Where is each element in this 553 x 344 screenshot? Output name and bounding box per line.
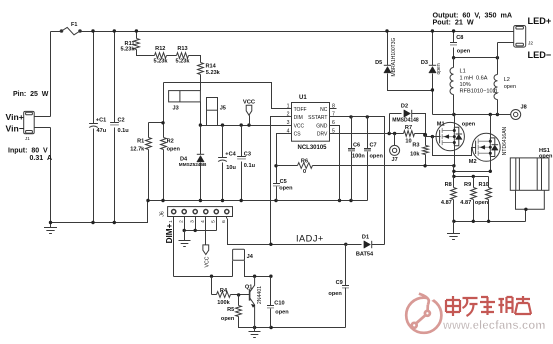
svg-text:L1: L1: [460, 68, 466, 74]
junction left rail / ground bus: [49, 221, 52, 224]
junction gnd line C4: [221, 199, 224, 202]
wire J2 bottom pin: [498, 42, 514, 44]
wire C10 lower: [270, 309, 272, 328]
svg-text:R9: R9: [464, 182, 471, 188]
diode D5: [384, 65, 391, 73]
svg-text:M2: M2: [469, 159, 477, 165]
capacitor C10: [267, 306, 274, 308]
junction DIM+ R4: [210, 275, 213, 278]
wire output node link: [454, 57, 498, 59]
junction C1 top rail: [91, 29, 94, 32]
svg-text:VCC: VCC: [294, 123, 305, 129]
wire C6 bottom lead: [351, 152, 353, 201]
wire switch node: [433, 114, 511, 116]
svg-text:0.31 A: 0.31 A: [30, 155, 53, 162]
junction source line right: [489, 170, 492, 173]
svg-text:RFB1010−102L: RFB1010−102L: [460, 88, 499, 94]
svg-text:D5: D5: [375, 60, 382, 66]
wire J6 pin6 stub: [226, 217, 228, 219]
svg-text:GND: GND: [316, 123, 328, 129]
wire J6 pin1 stub: [173, 217, 175, 219]
svg-text:6: 6: [221, 220, 227, 223]
junction R11 top rail: [135, 29, 138, 32]
wire J3 to VCC rail: [200, 102, 202, 126]
svg-text:M1: M1: [437, 121, 445, 127]
wire M2 gate jog: [433, 137, 476, 156]
svg-text:open: open: [370, 153, 384, 159]
capacitor C2: [110, 123, 119, 125]
wire U1 pin5 DRV: [330, 133, 404, 135]
svg-text:R6: R6: [301, 158, 308, 164]
svg-text:Pin: 25 W: Pin: 25 W: [13, 91, 49, 98]
svg-text:2: 2: [179, 220, 185, 223]
wire C8 bottom lead: [453, 48, 455, 58]
jumper J5: [207, 98, 218, 126]
svg-text:L2: L2: [504, 77, 510, 83]
power symbol VCC: [246, 105, 252, 125]
svg-text:open: open: [275, 309, 289, 315]
fuse F1: [60, 27, 81, 34]
svg-text:LED−: LED−: [528, 50, 552, 60]
svg-text:VCC: VCC: [205, 256, 211, 267]
junction IADJ DIM vertical: [269, 243, 272, 246]
ground symbol main left: [44, 223, 57, 234]
svg-text:J5: J5: [220, 105, 226, 111]
wire R9 bottom lead: [473, 200, 475, 222]
svg-text:U1: U1: [299, 95, 307, 101]
resistor R13: [177, 53, 189, 59]
testpoint J7: [390, 145, 400, 155]
junction gnd line D4: [199, 199, 202, 202]
wire C9 bottom lead: [345, 288, 347, 328]
wire J6 pin2 stub: [184, 217, 186, 219]
testpoint J8: [511, 110, 521, 120]
svg-text:10k: 10k: [410, 151, 420, 157]
wire left rail down (Vin- to ground bus): [50, 128, 52, 223]
svg-text:12.7k: 12.7k: [130, 147, 145, 153]
wire J6 pin1 DIM+ drop: [173, 219, 175, 277]
svg-text:SSTART: SSTART: [308, 115, 327, 121]
junction gnd line C3: [240, 199, 243, 202]
wire right ground bus: [454, 221, 526, 223]
zener diode D4: [197, 154, 204, 162]
junction IADJ C9: [344, 243, 347, 246]
wire D2 cathode lead: [412, 114, 426, 134]
junction TOFF left / R1 link: [161, 121, 164, 124]
resistor R8: [451, 188, 457, 200]
junction gate node R3: [423, 133, 427, 137]
svg-text:BAT54: BAT54: [356, 252, 374, 258]
svg-text:0: 0: [303, 169, 306, 175]
resistor R3: [423, 146, 429, 155]
transistor M2 source junction: [489, 152, 492, 155]
svg-text:C10: C10: [274, 300, 284, 306]
junction gate node M2 tap: [431, 135, 434, 138]
wire J6 pin5 to gnd tie: [216, 219, 218, 231]
svg-text:DRV: DRV: [317, 132, 328, 138]
svg-text:NCL30105: NCL30105: [298, 145, 328, 151]
junction VCC rail symbol: [247, 123, 250, 126]
wire R1 bottom lead: [148, 150, 150, 201]
svg-text:D2: D2: [401, 104, 408, 110]
junction gnd line C6: [349, 199, 352, 202]
junction D5 D3 link: [431, 88, 434, 91]
svg-text:R4: R4: [220, 288, 228, 294]
svg-text:3: 3: [287, 120, 290, 126]
svg-text:10%: 10%: [460, 82, 471, 88]
wire U1 pin2 DIM: [271, 117, 292, 245]
capacitor C1: [89, 124, 98, 128]
diode D1: [364, 241, 372, 248]
svg-text:MMSD4148: MMSD4148: [392, 118, 419, 124]
junction output C8 L1: [452, 56, 455, 59]
junction gnd tie pin3: [194, 229, 197, 232]
junction gnd line U1 GND: [338, 199, 341, 202]
watermark chinese text: [446, 296, 531, 316]
svg-text:DIM: DIM: [294, 115, 303, 121]
svg-text:C7: C7: [370, 143, 377, 149]
wire M2 source: [490, 153, 492, 172]
resistor R12: [155, 53, 167, 59]
transistor M2 gate junction: [489, 146, 492, 149]
svg-text:open: open: [457, 49, 471, 55]
wire R4 left lead: [212, 294, 217, 296]
svg-text:5.23k: 5.23k: [206, 70, 221, 76]
wire C6 top lead: [351, 117, 353, 149]
wire R5 top lead: [238, 295, 240, 306]
svg-text:Input: 80 V: Input: 80 V: [8, 147, 48, 154]
svg-text:47u: 47u: [97, 128, 107, 134]
wire left rail up (Vin+ to fuse): [50, 32, 52, 117]
svg-text:4.87: 4.87: [441, 200, 452, 206]
junction gnd line C5: [274, 199, 277, 202]
svg-text:J2: J2: [528, 40, 533, 46]
wire L1 bottom lead: [453, 95, 455, 115]
svg-text:C6: C6: [353, 143, 360, 149]
wire C4 top lead: [222, 126, 224, 158]
junction sense R9: [472, 175, 475, 178]
junction rail C8: [452, 29, 455, 32]
svg-text:2N4401: 2N4401: [257, 286, 263, 304]
junction gnd line R1: [146, 199, 149, 202]
svg-text:R3: R3: [412, 142, 419, 148]
capacitor C8: [450, 43, 457, 45]
svg-text:R10: R10: [479, 182, 489, 188]
svg-text:R7: R7: [405, 125, 412, 131]
wire HS1 to ground bus: [525, 210, 527, 222]
wire D3 bottom lead: [432, 74, 434, 115]
wire R2 bottom lead: [163, 150, 165, 201]
junction bottom line C10: [269, 326, 272, 329]
svg-text:IADJ+: IADJ+: [296, 233, 324, 243]
wire R13 to R14: [189, 56, 201, 63]
ground symbol right: [447, 222, 460, 240]
wire J6 pin2 to gnd tie: [184, 219, 186, 231]
svg-text:C5: C5: [280, 179, 287, 185]
jumper J4: [233, 249, 245, 260]
svg-text:R5: R5: [227, 307, 234, 313]
svg-text:D3: D3: [421, 60, 428, 66]
junction switch L2: [496, 113, 499, 116]
wire R7 right lead: [415, 134, 426, 137]
junction bus R9: [472, 220, 475, 223]
diode D3: [429, 65, 436, 73]
wire R9 top lead: [473, 177, 475, 188]
svg-text:J6: J6: [160, 211, 166, 217]
svg-text:R8: R8: [445, 182, 452, 188]
wire R4 drop: [211, 277, 213, 295]
wire L2 top lead: [497, 58, 499, 75]
junction CS line M1 source: [452, 164, 455, 167]
svg-text:3: 3: [190, 220, 196, 223]
svg-text:NTD6416AN: NTD6416AN: [502, 126, 508, 155]
svg-text:TOFF: TOFF: [294, 107, 307, 113]
resistor R4: [217, 292, 231, 298]
svg-text:NC: NC: [320, 107, 328, 113]
wire R6 left: [277, 165, 298, 167]
junction C2 ground bus: [113, 221, 116, 224]
wire D1 cathode lead: [372, 244, 385, 246]
wire R5 bottom lead: [239, 317, 240, 328]
wire VCC rail: [201, 125, 292, 127]
junction CS line R6: [274, 164, 277, 167]
wire gnd tie line: [185, 230, 217, 232]
svg-text:R12: R12: [155, 46, 165, 52]
svg-text:open: open: [328, 291, 342, 297]
wire Vin- pin to left rail: [35, 127, 51, 129]
wire C1 bottom: [93, 129, 95, 223]
junction gnd line R2: [161, 199, 164, 202]
junction gnd tie pin2: [183, 229, 186, 232]
wire L2 bottom lead: [497, 100, 499, 115]
svg-text:R14: R14: [206, 64, 217, 70]
svg-text:J4: J4: [247, 254, 254, 260]
wire DIM+ line left: [174, 276, 233, 278]
svg-text:open: open: [504, 84, 516, 90]
junction bottom line Q1 emitter: [253, 326, 256, 329]
wire L1 top lead: [453, 58, 455, 68]
wire R10 bottom lead: [488, 200, 490, 222]
wire C3 top lead: [241, 126, 243, 157]
wire R8 top lead: [453, 177, 455, 188]
transistor Q1: [250, 276, 255, 327]
wire R1 top lead: [148, 123, 150, 138]
svg-text:CS: CS: [294, 132, 302, 138]
wire C1 top: [93, 32, 95, 124]
junction DRV D2 left: [388, 132, 391, 135]
svg-text:open: open: [221, 316, 235, 322]
svg-text:5.23k: 5.23k: [121, 47, 136, 53]
wire C7 bottom lead: [367, 152, 369, 201]
wire D3 top lead: [432, 32, 434, 66]
jumper J3: [169, 91, 201, 102]
wire C10 upper: [270, 277, 272, 306]
wire J6 pin4 to VCC: [205, 219, 207, 245]
wire J4 left leg: [232, 261, 234, 277]
wire TOFF net left down to R2: [163, 83, 165, 138]
wire R3 top lead: [425, 135, 427, 146]
wire D2 anode lead: [390, 113, 402, 115]
wire U1 pin8 NC stub: [330, 108, 337, 110]
wire CS sense line: [313, 165, 454, 167]
junction DRV J7: [393, 132, 396, 135]
wire J4 right leg: [245, 261, 271, 277]
svg-text:4.87: 4.87: [460, 200, 471, 206]
wire U1 pin6 GND: [330, 126, 340, 201]
svg-text:10u: 10u: [226, 165, 236, 171]
svg-text:5.23k: 5.23k: [176, 59, 191, 65]
wire D4 bottom lead: [200, 163, 202, 201]
resistor R9: [471, 188, 477, 200]
wire J6 pin6 down: [228, 219, 346, 245]
wire C7 top lead: [367, 117, 369, 149]
junction C2 top rail: [113, 29, 116, 32]
wire D5 bottom lead: [388, 74, 433, 91]
transistor M2 drain junction: [489, 140, 492, 143]
junction Q1 collector top: [253, 275, 256, 278]
svg-text:J8: J8: [521, 105, 527, 111]
resistor R10: [486, 188, 492, 200]
wire R10 top lead: [488, 177, 490, 188]
wire analog ground line: [148, 200, 368, 202]
junction bus R8: [452, 220, 455, 223]
svg-text:open: open: [436, 63, 442, 74]
wire M1-M2 source line: [454, 171, 491, 173]
svg-text:D1: D1: [362, 234, 369, 240]
wire C3 bottom lead: [241, 162, 243, 201]
capacitor C4: [218, 158, 227, 162]
wire C2 top: [114, 32, 116, 123]
svg-text:open: open: [539, 153, 553, 159]
svg-text:C2: C2: [118, 117, 125, 123]
svg-text:+C1: +C1: [96, 117, 106, 123]
capacitor C3: [237, 157, 246, 159]
resistor R1: [146, 138, 152, 150]
svg-text:5.23k: 5.23k: [154, 59, 169, 65]
junction source line left: [452, 170, 455, 173]
inductor L2: [494, 75, 497, 100]
junction VCC rail C3: [240, 123, 243, 126]
junction HS1 tab: [524, 208, 527, 211]
svg-text:Pout: 21 W: Pout: 21 W: [433, 18, 474, 27]
wire J6 pin4 stub: [205, 217, 207, 219]
capacitor C9: [342, 286, 349, 288]
svg-text:www.elecfans.com: www.elecfans.com: [442, 320, 545, 332]
svg-text:J3: J3: [173, 105, 179, 111]
capacitor C7: [364, 149, 371, 151]
junction rail D3: [431, 29, 434, 32]
svg-text:Vin−: Vin−: [6, 123, 24, 133]
wire ground bus bottom left: [51, 201, 148, 223]
wire R3 bottom lead: [425, 155, 427, 166]
junction VCC rail D4: [199, 123, 202, 126]
svg-text:open: open: [167, 147, 181, 153]
svg-text:J1: J1: [25, 136, 30, 141]
junction C1 ground bus: [91, 221, 94, 224]
resistor R14: [198, 63, 204, 75]
svg-text:1: 1: [287, 103, 290, 109]
svg-text:R1: R1: [137, 139, 144, 145]
wire C4 bottom lead: [222, 163, 224, 201]
wire R11 top lead: [136, 32, 138, 39]
junction DIM vertical C10: [269, 275, 272, 278]
heatsink HS1: [510, 158, 549, 209]
junction bus R10: [487, 220, 490, 223]
transistor M2: [472, 133, 500, 161]
svg-text:R2: R2: [167, 139, 174, 145]
capacitor C5: [273, 184, 280, 186]
watermark logo circle: [406, 291, 441, 333]
power symbol VCC down: [203, 245, 209, 255]
wire R4 right lead: [231, 294, 250, 296]
svg-text:F1: F1: [71, 22, 77, 28]
wire J6 pin5 stub: [216, 217, 218, 219]
capacitor C6: [348, 149, 355, 151]
resistor R11: [134, 39, 140, 50]
wire R12 to R13: [167, 55, 177, 57]
junction VCC rail C4: [221, 123, 224, 126]
svg-text:Q1: Q1: [245, 285, 252, 291]
svg-text:5: 5: [211, 220, 217, 223]
ground symbol J6: [179, 231, 191, 247]
wire bottom mid ground line: [240, 327, 346, 329]
junction output LED- L2: [496, 56, 499, 59]
svg-text:0.1u: 0.1u: [244, 163, 256, 169]
svg-text:1 mH 0.6A: 1 mH 0.6A: [460, 75, 488, 81]
svg-text:open: open: [279, 186, 293, 192]
svg-text:C9: C9: [336, 280, 343, 286]
wire C9 top lead: [345, 245, 347, 286]
transistor M1 source junction: [453, 141, 456, 144]
op-amp U1 NCL30105 body: [292, 103, 330, 142]
svg-text:100n: 100n: [352, 153, 365, 159]
svg-text:Vin+: Vin+: [6, 112, 24, 122]
wire J7 stem: [394, 134, 396, 146]
wire top rail from F1 to J2: [51, 31, 62, 33]
svg-text:open: open: [462, 121, 476, 127]
svg-text:+C4: +C4: [225, 151, 236, 157]
connector J2: [514, 26, 526, 48]
wire C8 top lead: [453, 32, 455, 43]
connector J6: [168, 207, 233, 217]
wire M1 source: [454, 143, 456, 166]
wire D2 left leg: [389, 114, 391, 134]
wire J6 pin3 stub: [195, 217, 197, 219]
wire sense top line: [454, 176, 489, 178]
wire U1 pin7 SSTART: [330, 117, 385, 245]
resistor R6: [298, 163, 313, 169]
transistor M1: [436, 122, 464, 150]
wire D5 top lead: [387, 32, 389, 66]
resistor R7: [404, 131, 415, 137]
transistor M1 drain junction: [453, 129, 456, 132]
transistor M1 gate junction: [453, 135, 456, 138]
junction switch M1 drain: [452, 113, 455, 116]
svg-text:VCC: VCC: [243, 99, 256, 105]
junction SSTART C6: [349, 115, 352, 118]
junction sense R8: [452, 175, 455, 178]
svg-text:LED+: LED+: [528, 16, 552, 26]
wire LED- drop: [497, 43, 499, 58]
inductor L1: [450, 68, 453, 95]
wire Vin+ pin to left rail: [35, 116, 51, 118]
svg-text:J7: J7: [391, 157, 397, 163]
wire J6 pin3 to gnd tie: [195, 219, 197, 231]
junction rail D5: [385, 29, 388, 32]
wire U1 pin4 CS lower: [276, 186, 278, 201]
junction R4 R5 base: [237, 293, 240, 296]
svg-text:R13: R13: [177, 46, 187, 52]
